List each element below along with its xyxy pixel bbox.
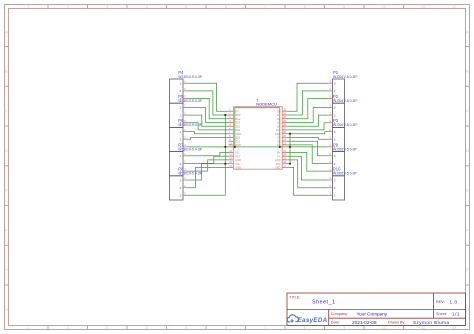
svg-text:D: D: [466, 148, 469, 153]
svg-text:WJ301V-5.0-3P: WJ301V-5.0-3P: [178, 99, 202, 103]
svg-text:D2: D2: [277, 117, 281, 121]
pin 13 (RST) of U1: [229, 154, 241, 159]
pin 26 (D4) of U1: [277, 124, 287, 129]
svg-text:3: 3: [334, 130, 336, 134]
svg-text:10: 10: [382, 326, 386, 330]
svg-text:WJ301V-5.0-3P: WJ301V-5.0-3P: [178, 172, 202, 176]
wire loop along ic top edge: [235, 108, 280, 147]
wire: [287, 83, 328, 111]
wire: [287, 132, 328, 134]
svg-text:D5: D5: [277, 136, 281, 140]
pin 15 (GND) of U1: [275, 165, 287, 170]
svg-text:11: 11: [421, 5, 425, 9]
svg-text:3V3: 3V3: [276, 128, 281, 132]
svg-text:B: B: [5, 68, 8, 73]
svg-text:B: B: [466, 68, 469, 73]
junction: [224, 146, 226, 148]
svg-text:EN: EN: [235, 151, 239, 155]
svg-text:Sheet:: Sheet:: [436, 312, 447, 316]
svg-text:12: 12: [452, 326, 456, 330]
svg-text:SD0: SD0: [235, 136, 241, 140]
pin 5 (SD2) of U1: [229, 124, 241, 129]
wire: [287, 99, 328, 119]
pin 23 (D5) of U1: [277, 135, 287, 140]
svg-text:D0: D0: [277, 109, 281, 113]
svg-text:3: 3: [179, 194, 181, 198]
pin 2 (RSV) of U1: [229, 112, 241, 117]
svg-text:REV:: REV:: [436, 300, 445, 304]
svg-text:1: 1: [27, 326, 29, 330]
pin 16 (GND) of U1: [229, 165, 241, 170]
svg-text:1: 1: [179, 82, 181, 86]
svg-text:C: C: [5, 108, 8, 113]
connector P5 (WJ301V-5.0-3P, left): [170, 94, 203, 127]
svg-text:WJ301V-5.0-3P: WJ301V-5.0-3P: [333, 172, 357, 176]
svg-text:6: 6: [225, 326, 227, 330]
wire right gnd bus: [289, 134, 291, 164]
wire: [188, 160, 229, 171]
wire: [188, 123, 229, 130]
wire net GND (full crossing): [188, 146, 329, 148]
svg-text:3: 3: [106, 5, 108, 9]
wire: [287, 160, 328, 188]
junction: [224, 163, 226, 165]
connector P7 (WJ301V-5.0-3P, left): [170, 142, 203, 175]
pin 18 (TX) of U1: [277, 154, 287, 159]
svg-text:GND: GND: [235, 166, 241, 170]
wire: [188, 132, 229, 134]
svg-text:5: 5: [185, 5, 187, 9]
svg-text:4: 4: [146, 326, 148, 330]
svg-text:EasyEDA: EasyEDA: [298, 317, 328, 324]
title block frame: [287, 293, 466, 326]
pin 22 (D6) of U1: [277, 139, 287, 144]
pin 16 (3V3) of U1: [276, 161, 287, 166]
pin 9 (CLK) of U1: [229, 139, 241, 144]
svg-text:RST: RST: [235, 154, 241, 158]
svg-text:TITLE:: TITLE:: [290, 296, 301, 300]
svg-text:2: 2: [334, 89, 336, 93]
svg-text:3: 3: [334, 178, 336, 182]
svg-text:WJ301V-5.0-3P: WJ301V-5.0-3P: [178, 75, 202, 79]
svg-text:E: E: [5, 188, 8, 193]
svg-text:11: 11: [421, 326, 425, 330]
svg-text:7: 7: [264, 5, 266, 9]
pin 7 (CMD) of U1: [229, 131, 242, 136]
pin 21 (D7) of U1: [277, 142, 287, 147]
svg-text:RSV: RSV: [235, 117, 241, 121]
svg-text:D4: D4: [277, 124, 281, 128]
svg-text:1: 1: [334, 194, 336, 198]
connector P9 (WJ301V-5.0-3P, right): [328, 142, 357, 175]
junction: [289, 163, 291, 165]
svg-text:3V3: 3V3: [276, 162, 281, 166]
wire: [287, 107, 328, 122]
svg-text:CLK: CLK: [235, 139, 240, 143]
svg-text:NODEMCU: NODEMCU: [256, 101, 277, 106]
wire: [287, 137, 328, 139]
pin 19 (RX) of U1: [277, 150, 287, 155]
svg-text:2: 2: [334, 138, 336, 142]
wire: [287, 163, 290, 165]
connector P10 (WJ301V-5.0-3P, right): [328, 167, 357, 200]
svg-text:Drawn By:: Drawn By:: [388, 321, 406, 325]
wire: [287, 167, 328, 195]
pin 8 (SD0) of U1: [229, 135, 241, 140]
svg-text:3: 3: [106, 326, 108, 330]
svg-text:WJ301V-5.0-3P: WJ301V-5.0-3P: [178, 123, 202, 127]
pin 10 (GND) of U1: [229, 142, 241, 147]
svg-text:Sheet_1: Sheet_1: [312, 299, 335, 305]
svg-text:D3: D3: [277, 121, 281, 125]
svg-text:Date:: Date:: [331, 321, 340, 325]
svg-text:2: 2: [334, 162, 336, 166]
svg-text:2021-02-08: 2021-02-08: [352, 320, 377, 325]
wire left gnd bus: [224, 115, 226, 164]
svg-text:WJ301V-5.0-3P: WJ301V-5.0-3P: [178, 147, 202, 151]
svg-text:WJ301V-5.0-3P: WJ301V-5.0-3P: [333, 75, 357, 79]
pin 24 (GND) of U1: [275, 131, 287, 136]
connector P3 (WJ301V-5.0-3P, right): [328, 118, 357, 151]
wire: [287, 123, 328, 130]
svg-text:H: H: [466, 307, 469, 312]
svg-text:RSV: RSV: [235, 113, 241, 117]
pin 27 (D3) of U1: [277, 120, 287, 125]
svg-text:WJ301V-5.0-3P: WJ301V-5.0-3P: [333, 147, 357, 151]
svg-text:GND: GND: [235, 158, 241, 162]
svg-text:2: 2: [334, 186, 336, 190]
svg-text:1: 1: [179, 178, 181, 182]
svg-text:7: 7: [264, 326, 266, 330]
svg-text:D6: D6: [277, 139, 281, 143]
wire: [188, 164, 229, 180]
svg-text:A: A: [5, 30, 8, 35]
pin 12 (EN) of U1: [229, 150, 239, 155]
pin 29 (D1) of U1: [277, 112, 287, 117]
svg-text:G: G: [466, 267, 469, 272]
svg-text:2: 2: [179, 113, 181, 117]
wire: [287, 145, 328, 164]
svg-text:A0: A0: [235, 109, 239, 113]
svg-text:9: 9: [343, 326, 345, 330]
svg-text:Company:: Company:: [331, 312, 348, 316]
wire: [188, 83, 229, 111]
pin 1 (A0) of U1: [229, 109, 239, 114]
svg-text:9: 9: [343, 5, 345, 9]
svg-text:G: G: [5, 267, 8, 272]
pin 30 (D0) of U1: [277, 109, 287, 114]
connector P6 (WJ301V-5.0-3P, left): [170, 118, 203, 151]
junction: [279, 146, 281, 148]
svg-text:D: D: [5, 148, 8, 153]
svg-text:3: 3: [334, 154, 336, 158]
svg-text:RX: RX: [277, 151, 281, 155]
svg-text:8: 8: [304, 326, 306, 330]
svg-text:1: 1: [179, 130, 181, 134]
svg-text:4: 4: [146, 5, 148, 9]
junction: [224, 114, 226, 116]
wire: [188, 107, 229, 122]
wire: [188, 115, 229, 126]
connector P2 (WJ301V-5.0-3P, right): [328, 94, 357, 127]
svg-text:SD1: SD1: [235, 128, 241, 132]
svg-text:2: 2: [179, 138, 181, 142]
pin 14 (GND) of U1: [229, 157, 241, 162]
svg-text:2: 2: [334, 113, 336, 117]
wire: [287, 152, 328, 171]
svg-text:TX: TX: [277, 154, 281, 158]
svg-text:D1: D1: [277, 113, 281, 117]
svg-text:GND: GND: [275, 166, 281, 170]
connector P4 (WJ301V-5.0-3P, left): [170, 70, 203, 103]
wire: [287, 141, 328, 156]
svg-text:1: 1: [179, 154, 181, 158]
svg-text:E: E: [466, 188, 469, 193]
svg-text:1/1: 1/1: [452, 311, 460, 316]
svg-text:6: 6: [225, 5, 227, 9]
svg-text:A: A: [466, 30, 469, 35]
svg-text:C: C: [466, 108, 469, 113]
wire: [188, 99, 229, 119]
junction: [234, 146, 236, 148]
pin 15 (VIN) of U1: [229, 161, 240, 166]
svg-text:WJ301V-5.0-3P: WJ301V-5.0-3P: [333, 123, 357, 127]
svg-text:WJ301V-5.0-3P: WJ301V-5.0-3P: [333, 99, 357, 103]
svg-text:GND: GND: [235, 143, 241, 147]
pin 25 (3V3) of U1: [276, 127, 287, 132]
pin 28 (D2) of U1: [277, 116, 287, 121]
wire: [188, 137, 229, 139]
wire: [188, 152, 229, 155]
easyeda logo: [287, 315, 327, 324]
svg-text:Your Company: Your Company: [357, 311, 388, 316]
ic U1 NODEMCU: [233, 98, 282, 169]
svg-text:SD3: SD3: [235, 121, 241, 125]
pin 6 (SD1) of U1: [229, 127, 241, 132]
wire: [188, 164, 226, 196]
wire: [287, 91, 328, 115]
pin 17 (GND) of U1: [275, 157, 287, 162]
svg-text:3: 3: [334, 106, 336, 110]
wire: [188, 156, 229, 163]
svg-text:SD2: SD2: [235, 124, 241, 128]
svg-text:2: 2: [179, 89, 181, 93]
svg-text:1: 1: [179, 106, 181, 110]
svg-text:2: 2: [179, 162, 181, 166]
svg-text:12: 12: [452, 5, 456, 9]
pin 3 (RSV) of U1: [229, 116, 241, 121]
junction: [289, 146, 291, 148]
svg-text:10: 10: [382, 5, 386, 9]
svg-text:5: 5: [185, 326, 187, 330]
svg-text:CMD: CMD: [235, 132, 241, 136]
svg-text:3: 3: [334, 82, 336, 86]
svg-text:2: 2: [67, 5, 69, 9]
wire: [188, 91, 229, 115]
svg-text:2: 2: [179, 186, 181, 190]
wire: [287, 156, 328, 180]
svg-text:1.0: 1.0: [450, 299, 458, 304]
junction: [289, 133, 291, 135]
svg-text:8: 8: [304, 5, 306, 9]
svg-text:GND: GND: [275, 158, 281, 162]
connector P8 (WJ301V-5.0-3P, left): [170, 167, 203, 200]
svg-text:2: 2: [67, 326, 69, 330]
svg-text:VIN: VIN: [235, 162, 239, 166]
wire: [287, 115, 328, 126]
svg-text:1: 1: [27, 5, 29, 9]
wire: [188, 167, 229, 187]
connector P1 (WJ301V-5.0-3P, right): [328, 70, 357, 103]
svg-text:Szymon Bluma: Szymon Bluma: [413, 320, 449, 325]
pin 4 (SD3) of U1: [229, 120, 241, 125]
svg-text:H: H: [5, 307, 8, 312]
